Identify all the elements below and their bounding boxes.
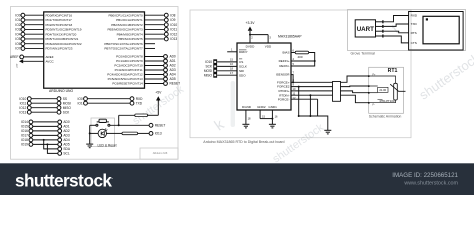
ground bus wire [299, 116, 328, 130]
svg-text:PB6/TOSC1/XTAL1/PCINT6: PB6/TOSC1/XTAL1/PCINT6 [104, 42, 143, 46]
svg-text:AD0: AD0 [170, 55, 176, 59]
svg-text:IO18: IO18 [21, 138, 28, 142]
svg-text:400: 400 [298, 55, 303, 59]
svg-text:AREF: AREF [10, 55, 19, 59]
svg-text:PD0/RXD/PCINT16: PD0/RXD/PCINT16 [46, 13, 73, 17]
wire UART to terminal pin 1 [384, 16, 409, 22]
svg-text:PD1/TXD/PCINT17: PD1/TXD/PCINT17 [46, 18, 73, 22]
RT1 internal wire F- to RTD bottom [370, 100, 396, 103]
svg-text:PD2/INT0/PCINT18: PD2/INT0/PCINT18 [46, 23, 73, 27]
svg-text:AD3: AD3 [63, 134, 69, 138]
svg-text:PC6/RESET/PCINT14: PC6/RESET/PCINT14 [112, 82, 143, 86]
wire ground rail vertical [89, 125, 91, 144]
svg-text:IO16: IO16 [21, 129, 28, 133]
svg-text:REFIN+: REFIN+ [279, 59, 290, 63]
terminal RESET out [149, 123, 153, 127]
wire LED cathode to resistor R2 [106, 132, 122, 134]
svg-text:SCL: SCL [63, 152, 69, 156]
svg-text:IO9: IO9 [170, 18, 175, 22]
wire FORCE- row [291, 98, 318, 100]
svg-text:ARduino 328: ARduino 328 [153, 152, 168, 155]
terminal device box [409, 12, 464, 51]
wire junction up to pull-up resistor R1 [118, 115, 120, 125]
svg-text:Schematic Animation: Schematic Animation [369, 115, 402, 119]
svg-text:AVCC: AVCC [46, 59, 55, 63]
wire RTD conductor 1 to RT1 [341, 76, 369, 82]
wire Rref to REFIN+ / REFIN- [291, 53, 315, 67]
svg-text:IO1: IO1 [15, 18, 20, 22]
branch wire to SCL terminal [46, 143, 48, 145]
svg-text:PC5/ADC5/SCL/PCINT13: PC5/ADC5/SCL/PCINT13 [108, 77, 143, 81]
wire rail to LED anode [90, 132, 99, 134]
pushbutton S1 [96, 124, 98, 126]
middle sheet frame [190, 10, 411, 138]
wire RTDIN- drop to ground bus [309, 95, 311, 116]
svg-text:PC3/ADC3/PCINT11: PC3/ADC3/PCINT11 [115, 68, 143, 72]
UART pin 3 wire [376, 30, 383, 32]
RT1 enclosure box [369, 67, 404, 113]
wire UART to terminal pin 4 [384, 36, 409, 43]
wire R1 to +5V [148, 114, 159, 116]
svg-text:GND1: GND1 [268, 105, 277, 109]
svg-text:PB1/OC1A/PCINT1: PB1/OC1A/PCINT1 [116, 18, 143, 22]
svg-text:AD3: AD3 [170, 68, 176, 72]
svg-text:LED & Reset: LED & Reset [98, 143, 117, 147]
wire FORCE2 row to connector [291, 86, 333, 88]
wire DGND to ground [245, 110, 247, 124]
grove terminal frame [348, 10, 466, 51]
svg-text:RXD: RXD [411, 14, 418, 18]
LED and Reset enclosure box [91, 118, 115, 147]
wire FORCE2 drop to ground bus [298, 87, 300, 116]
resistor Rref 400 [295, 51, 308, 54]
svg-text:RESET: RESET [155, 123, 166, 127]
svg-text:IO7: IO7 [15, 47, 20, 51]
svg-text:DGND: DGND [242, 105, 252, 109]
svg-text:IO13: IO13 [155, 132, 162, 136]
svg-text:PB5/SCK/PCINT5: PB5/SCK/PCINT5 [118, 37, 143, 41]
svg-text:PD5/T1/OC0B/PCINT21: PD5/T1/OC0B/PCINT21 [46, 37, 79, 41]
wire REFIN+ row [291, 60, 315, 62]
svg-text:FORCE-: FORCE- [278, 97, 290, 101]
svg-text:IO17: IO17 [21, 134, 28, 138]
svg-text:PB0/ICP1/CLKO/PCINT0: PB0/ICP1/CLKO/PCINT0 [108, 13, 143, 17]
svg-text:SDA: SDA [63, 147, 70, 151]
svg-text:IO15: IO15 [21, 125, 28, 129]
svg-text:www.shutterstock.com: www.shutterstock.com [403, 181, 458, 187]
wire RTD conductor 2 to RT1 [341, 85, 369, 88]
svg-text:IO11: IO11 [20, 101, 27, 105]
branch wire to SDA terminal [43, 139, 45, 141]
svg-text:Arduino MAX31865 RTD to Digita: Arduino MAX31865 RTD to Digital Break-ou… [203, 140, 284, 144]
svg-text:ISENSOR: ISENSOR [276, 73, 291, 77]
svg-text:DVDD: DVDD [246, 44, 255, 48]
svg-text:GND2: GND2 [257, 105, 266, 109]
svg-text:SCK: SCK [63, 110, 70, 114]
resistor R2 to IO13 [122, 132, 138, 135]
svg-text:PD4/T0/XCK/PCINT20: PD4/T0/XCK/PCINT20 [46, 32, 77, 36]
RT1 pin 3 [368, 92, 370, 94]
svg-text:IO10: IO10 [170, 23, 177, 27]
svg-text:AD1: AD1 [63, 125, 69, 129]
svg-text:MOSI: MOSI [204, 69, 212, 73]
ground DGND [242, 123, 249, 125]
RTD element resistor [394, 83, 398, 100]
wire ISENSOR down to FORCE+ row [291, 75, 293, 83]
svg-text:RTS: RTS [411, 31, 417, 35]
wire +3.3V to DVDD and VDD [249, 31, 251, 43]
svg-text:CS: CS [239, 60, 243, 64]
RTD diagonal arrow [390, 84, 405, 91]
left sheet title block [140, 148, 178, 159]
svg-text:AD2: AD2 [170, 64, 176, 68]
IC U2 MAX31865AAP body [237, 43, 291, 110]
svg-text:REFIN-: REFIN- [279, 64, 289, 68]
RT1 pin F- [368, 102, 370, 104]
svg-text:MAX31865AAP: MAX31865AAP [278, 34, 302, 38]
svg-text:PC4/ADC4/SDA/PCINT12: PC4/ADC4/SDA/PCINT12 [107, 73, 143, 77]
svg-text:21.00: 21.00 [379, 88, 386, 92]
svg-text:PC1/ADC1/PCINT9: PC1/ADC1/PCINT9 [116, 59, 143, 63]
svg-text:IO8: IO8 [170, 13, 175, 17]
RT1 internal wire F+ to RTD top [370, 76, 396, 83]
svg-text:IO1: IO1 [77, 101, 82, 105]
svg-text:IMAGE ID: 2250665121: IMAGE ID: 2250665121 [392, 172, 458, 179]
UART box [355, 20, 375, 37]
svg-text:DRDY: DRDY [239, 50, 248, 54]
ground RTD return [324, 129, 331, 131]
wire R2 to IO13 terminal [138, 132, 150, 134]
left sheet frame [11, 7, 179, 160]
svg-text:IO6: IO6 [15, 42, 20, 46]
svg-text:IO19: IO19 [21, 143, 28, 147]
svg-text:PB3/MOSI/OC2A/PCINT3: PB3/MOSI/OC2A/PCINT3 [107, 28, 143, 32]
RT1 internal wire sense+ [370, 85, 378, 87]
connector J1 4-pin header [213, 59, 217, 77]
svg-text:PB7/TOSC2/XTAL2/PCINT7: PB7/TOSC2/XTAL2/PCINT7 [104, 47, 143, 51]
svg-text:PD6/AIN0/OC0A/PCINT22: PD6/AIN0/OC0A/PCINT22 [46, 42, 82, 46]
svg-text:IO4: IO4 [15, 32, 20, 36]
wire button-right to RESET terminal [110, 124, 149, 126]
svg-text:IO5: IO5 [15, 37, 20, 41]
svg-text:AD4: AD4 [63, 138, 69, 142]
wire GND2 GND1 join to ground [259, 110, 261, 119]
svg-text:PC2/ADC2/PCINT10: PC2/ADC2/PCINT10 [114, 64, 143, 68]
svg-text:AD4: AD4 [170, 73, 176, 77]
svg-text:AD2: AD2 [63, 129, 69, 133]
wire RTD conductor 4 to RT1 [341, 95, 369, 103]
svg-text:RESET: RESET [170, 82, 181, 86]
screen cursor dot [426, 18, 428, 20]
svg-text:IO13: IO13 [170, 37, 177, 41]
svg-text:RXD: RXD [136, 97, 143, 101]
svg-text:IO10: IO10 [205, 60, 212, 64]
device screen [423, 16, 459, 44]
terminal IO13 out [149, 132, 153, 136]
svg-text:PC0/ADC0/PCINT8: PC0/ADC0/PCINT8 [116, 55, 143, 59]
svg-text:MISO: MISO [204, 73, 213, 77]
svg-text:IO10: IO10 [19, 97, 26, 101]
svg-text:AD0: AD0 [63, 120, 69, 124]
svg-text:PD7/AIN1/PCINT23: PD7/AIN1/PCINT23 [46, 47, 73, 51]
svg-text:VDD: VDD [265, 44, 272, 48]
wire RTDIN- row to connector [291, 94, 333, 96]
svg-text:F-: F- [373, 104, 375, 107]
svg-text:PB2/SS/OC1B/PCINT2: PB2/SS/OC1B/PCINT2 [111, 23, 143, 27]
svg-text:IO13: IO13 [19, 110, 26, 114]
pin DRDY stub [227, 51, 237, 53]
resistor R1 pull-up [135, 114, 148, 117]
RT1 pin 2 [368, 85, 370, 87]
RT1 pin F+ [368, 75, 370, 77]
svg-text:TXD: TXD [136, 101, 143, 105]
UART pin 4 wire [376, 35, 383, 37]
faint diagonal watermark [131, 21, 474, 166]
RT1 temperature display 21.00 [378, 87, 388, 92]
svg-text:ARDUINO UNO: ARDUINO UNO [49, 89, 73, 93]
svg-text:TXD: TXD [411, 22, 418, 26]
svg-text:CTS: CTS [411, 41, 417, 45]
RT1 internal wire sense- [370, 92, 378, 94]
svg-text:SS: SS [63, 97, 67, 101]
svg-text:AD5: AD5 [63, 143, 69, 147]
svg-text:IO12: IO12 [170, 32, 177, 36]
svg-text:SDO: SDO [239, 73, 246, 77]
wire BIAS to Rref [291, 52, 295, 54]
UART pin 1 wire [376, 21, 383, 23]
wire FORCE- drop to ground bus [317, 99, 319, 116]
svg-text:+5V: +5V [17, 63, 19, 67]
svg-text:PD3/INT1/OC2B/PCINT19: PD3/INT1/OC2B/PCINT19 [46, 28, 82, 32]
svg-text:RT1: RT1 [388, 68, 398, 74]
svg-text:BIAS: BIAS [283, 51, 290, 55]
power +5V arrow on AVCC [19, 59, 23, 63]
svg-text:IO0: IO0 [77, 97, 82, 101]
svg-text:PB4/MISO/PCINT4: PB4/MISO/PCINT4 [117, 32, 143, 36]
ground GND2/GND1 [269, 123, 276, 125]
wire button-left to ground rail [90, 124, 96, 126]
svg-text:IO3: IO3 [15, 28, 20, 32]
IC U1 ARDUINO UNO body [44, 12, 145, 88]
wire RTD conductor 3 to RT1 [341, 91, 369, 93]
svg-text:+3.3V: +3.3V [246, 21, 256, 25]
svg-text:IO14: IO14 [21, 120, 28, 124]
svg-text:SDI: SDI [239, 69, 244, 73]
svg-text:AD1: AD1 [170, 59, 176, 63]
connector J2 RTD plug [333, 82, 341, 102]
wire RTDIN+ row to connector [291, 90, 333, 92]
svg-text:AD5: AD5 [170, 77, 176, 81]
svg-text:shutterstock·: shutterstock· [15, 170, 113, 190]
svg-text:SCLK: SCLK [239, 65, 247, 69]
svg-text:Grove Terminal: Grove Terminal [351, 52, 376, 56]
wire UART to terminal pin 3 [384, 31, 409, 33]
UART pin 2 wire [376, 25, 383, 27]
svg-text:IO11: IO11 [170, 28, 177, 32]
svg-text:SCK: SCK [205, 65, 212, 69]
ground under LED & Reset [86, 143, 93, 145]
svg-text:IO0: IO0 [15, 13, 20, 17]
wire FORCE+ row to connector [291, 81, 333, 83]
shutterstock footer band [0, 163, 474, 195]
svg-text:MOSI: MOSI [63, 101, 71, 105]
svg-text:IO12: IO12 [19, 106, 26, 110]
svg-text:AREF: AREF [46, 55, 54, 59]
svg-text:UART: UART [357, 26, 374, 33]
wire UART to terminal pin 2 [384, 24, 409, 26]
svg-text:MISO: MISO [63, 106, 72, 110]
LED D1 [98, 129, 106, 137]
svg-text:+5V: +5V [155, 91, 162, 95]
svg-text:IO2: IO2 [15, 23, 20, 27]
